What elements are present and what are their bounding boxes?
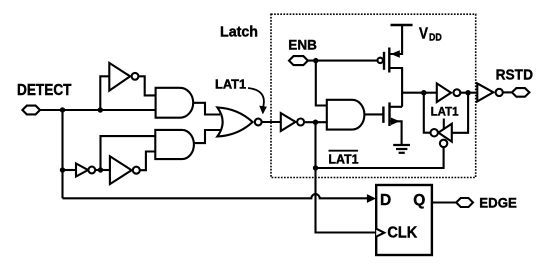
wire DETECT main <box>40 109 156 111</box>
inverter U7 (outside latch) <box>477 83 493 101</box>
svg-text:Q: Q <box>413 192 425 209</box>
AND gate G1 <box>156 88 194 118</box>
wire G4 output to NMOS gate <box>364 113 383 115</box>
U6 enable stub <box>443 119 445 130</box>
svg-text:EDGE: EDGE <box>479 195 517 210</box>
wire J5 down to CLK <box>316 122 377 232</box>
svg-text:CLK: CLK <box>387 224 418 241</box>
wire Q output <box>432 201 456 203</box>
inverter U4 <box>281 113 296 131</box>
wire U3 output to U2 input <box>95 169 110 171</box>
wire J2 up to inverter U1 input <box>100 76 109 110</box>
svg-text:ENB: ENB <box>288 36 317 52</box>
pin DETECT <box>22 106 40 115</box>
pin EDGE <box>456 198 473 207</box>
wire G1 output to NOR G3 top input <box>193 103 220 115</box>
VDD symbol <box>391 24 413 26</box>
wire U7 to RSTD pin <box>503 91 512 93</box>
AND gate G2 <box>155 130 194 159</box>
svg-text:Latch: Latch <box>220 25 258 41</box>
svg-text:LAT1: LAT1 <box>328 152 358 166</box>
inverter U3 <box>76 164 88 177</box>
M2 source arrow to ground <box>390 121 402 145</box>
M2 drain wire up (joins node line) <box>390 106 403 108</box>
wire J3 to inverter U3 input <box>63 169 77 171</box>
wire D line <box>63 194 368 198</box>
NOR gate G3 <box>217 107 252 136</box>
node J5 <box>313 120 318 125</box>
wire LAT1bar to U6 enable <box>316 147 444 168</box>
FF clock triangle <box>376 229 384 237</box>
M1 drain wire down <box>389 68 402 107</box>
wire J8 down to feedback inverter U6 input <box>452 93 468 133</box>
pin RSTD <box>512 88 530 97</box>
wire U2 output to G2 bottom input <box>140 152 156 171</box>
wire G2 output to NOR G3 bottom input <box>194 130 221 143</box>
svg-text:LAT1: LAT1 <box>215 78 246 92</box>
wire J6 down to NAND G4 top input <box>316 61 327 106</box>
node J9 <box>313 165 318 170</box>
flip-flop FF1 <box>376 185 432 255</box>
M1 source arrow to VDD <box>389 25 402 54</box>
wire J1 down to D line <box>61 110 63 198</box>
inverter U2 <box>110 156 132 184</box>
transistor M2 NMOS <box>382 107 384 123</box>
arrowhead into D <box>367 194 376 203</box>
dashed latch box <box>271 14 476 177</box>
U6 enable bubble <box>440 140 447 147</box>
svg-text:RSTD: RSTD <box>496 67 534 84</box>
svg-text:DETECT: DETECT <box>17 82 72 99</box>
ground symbol <box>393 144 410 146</box>
transistor M1 PMOS gate bubble <box>378 58 383 63</box>
node J4 <box>98 167 103 172</box>
pin ENB <box>289 56 308 65</box>
U6 output bubble <box>431 129 438 136</box>
inverter U1 <box>109 63 130 91</box>
svg-text:LAT1: LAT1 <box>431 105 459 119</box>
node J6 <box>313 58 318 63</box>
wire NOR output to latch inverter U4 <box>262 121 281 123</box>
wire U5 output to inverter U7 <box>460 92 477 94</box>
svg-text:V: V <box>419 26 428 43</box>
wire J4 up to AND G2 top input <box>101 136 156 170</box>
svg-text:DD: DD <box>429 33 442 44</box>
wire U1 output to AND G1 top input <box>138 76 155 95</box>
node J8 <box>465 90 470 95</box>
wire latch node to inverter U5 <box>402 92 437 94</box>
inverter U5 <box>437 83 451 102</box>
svg-text:D: D <box>380 192 391 209</box>
NAND gate G4 <box>327 100 365 130</box>
node J2 <box>98 107 103 112</box>
wire ENB to PMOS gate <box>308 60 378 62</box>
transistor M1 PMOS <box>383 52 385 70</box>
wire U6 output up to node J7 <box>424 93 431 133</box>
inverter U6 (feedback, clocked) <box>438 124 451 142</box>
node J1 <box>60 107 65 112</box>
node J7 <box>421 90 426 95</box>
wire U4 output to NAND G4 bottom input <box>304 121 327 123</box>
arrow LAT1 pointer <box>248 88 264 107</box>
node J3 <box>60 167 65 172</box>
